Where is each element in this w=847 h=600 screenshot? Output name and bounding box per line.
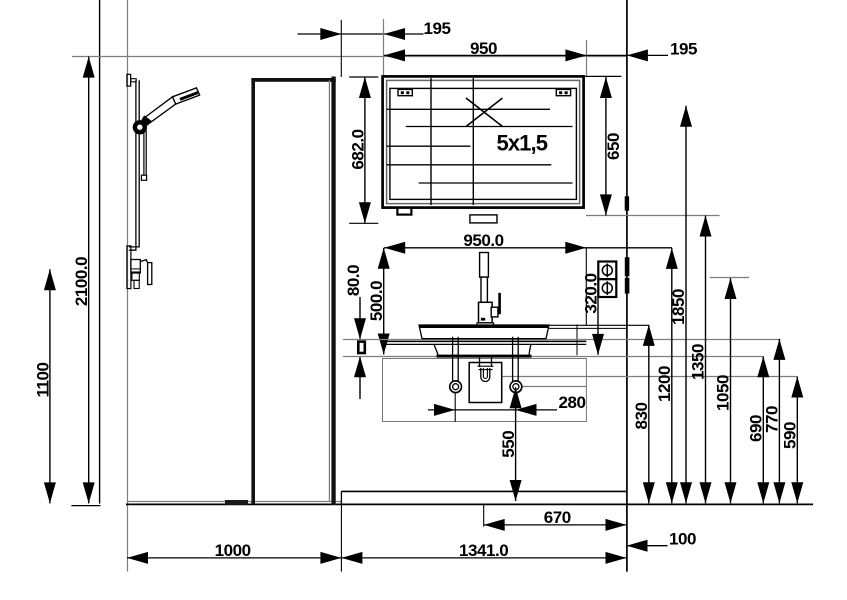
wall edge right: [626, 0, 628, 572]
sink ext line right: [585, 248, 587, 325]
under-sink gray outline box: [383, 359, 587, 422]
dim 682.0: down arrow: [359, 202, 371, 223]
shower valve body: [131, 260, 140, 274]
reference line at cabinet bottom to 1350: [586, 215, 720, 217]
dim 950.0 sink: left arrow: [384, 242, 405, 254]
svg-text:195: 195: [424, 19, 451, 38]
dim 195 top-left: left-pointing arrow: [384, 28, 405, 40]
dim 100: [627, 530, 697, 552]
dim 195 top-left: right-pointing arrow: [320, 28, 341, 40]
shower rail top arm: [131, 79, 137, 82]
svg-text:950.0: 950.0: [463, 231, 503, 250]
dim 950 top: right arrow: [565, 49, 586, 61]
wall mount block 3: [625, 278, 630, 294]
dim 195 top-right: left-pointing arrow at wall: [627, 49, 648, 61]
svg-text:500.0: 500.0: [367, 281, 386, 321]
faucet riser top: [480, 253, 489, 278]
reference line 690-level: [343, 356, 763, 358]
dim 500.0: down arrow: [378, 334, 390, 355]
dim 670: [484, 508, 627, 531]
mirror cabinet divider 1: [430, 78, 432, 205]
svg-text:100: 100: [669, 530, 696, 549]
washtop slab top line: [383, 340, 586, 342]
dim 1050 top tick: [710, 277, 749, 279]
left supply pipe: [452, 337, 454, 381]
siphon box: [469, 363, 502, 403]
drain tube from basin: [479, 358, 481, 367]
dim 682.0: top tick: [349, 76, 378, 78]
svg-text:1100: 1100: [34, 362, 53, 397]
shelf line 1: [387, 108, 550, 110]
dim 280: left-pointing arrow: [516, 404, 537, 416]
wall mount block 2: [625, 257, 630, 276]
dim 950 top: left arrow: [384, 49, 405, 61]
wall face line left: [127, 0, 129, 572]
reference line 770-level: [343, 339, 780, 341]
dim 2100.0: up arrow: [83, 57, 95, 78]
shower panel inner gray line: [328, 80, 330, 501]
shower elbow joint: [141, 115, 151, 125]
right angle valve: [510, 381, 522, 393]
dim 195 top-left: line: [298, 33, 424, 35]
shower panel left edge: [251, 78, 255, 504]
dim 950 top: line with tail to 195 text: [384, 54, 668, 56]
dim 650: line: [605, 77, 607, 215]
dim 830: [632, 325, 655, 503]
reference line valve-level: [522, 386, 586, 388]
bottom-left fitting: [397, 208, 411, 215]
svg-text:2100.0: 2100.0: [72, 257, 91, 306]
dim 1341.0: [341, 541, 626, 564]
ext line below floor at 341.4: [340, 504, 342, 572]
ext line above panel: [340, 20, 342, 77]
shelf line 4: [387, 164, 552, 166]
reference line 590-level: [501, 376, 798, 378]
shower hose: [143, 130, 145, 176]
svg-text:830: 830: [632, 402, 651, 429]
dim 1100: down arrow: [44, 482, 56, 503]
svg-text:1341.0: 1341.0: [459, 541, 508, 560]
svg-text:280: 280: [559, 393, 586, 412]
X cross mark: [466, 98, 503, 127]
dim 2100.0: down arrow: [83, 482, 95, 503]
faucet riser mid: [481, 277, 487, 302]
reference line second at rim bottom: [549, 327, 627, 329]
mirror cabinet divider 2: [472, 78, 474, 205]
washtop wall bracket square: [358, 342, 365, 353]
dim 1350: [689, 216, 712, 504]
shower rail top bracket plate: [127, 74, 131, 86]
basin rim top band: [419, 325, 549, 328]
dim 1200: [655, 248, 678, 503]
wall mount block 1: [625, 196, 629, 210]
dim 550: up arrow: [510, 387, 522, 408]
shower valve lower box: [134, 280, 139, 288]
shower valve inner box: [132, 272, 139, 280]
svg-text:5x1,5: 5x1,5: [497, 131, 548, 156]
dim 2100.0: line: [88, 57, 90, 504]
dim 682.0: line: [364, 77, 366, 223]
shelf line 2: [406, 126, 573, 128]
svg-text:1200: 1200: [655, 366, 674, 402]
shower rail tube: [129, 80, 139, 250]
dim 1100: up arrow: [44, 269, 56, 290]
shower hose end fitting: [141, 175, 146, 180]
plinth top line: [341, 490, 626, 492]
dim 320.0: line: [597, 290, 599, 355]
shower valve cross lines: [131, 268, 140, 270]
short vertical line right of basin: [576, 325, 578, 356]
shower valve backplate: [127, 246, 131, 289]
socket box upper: [598, 262, 616, 280]
hinge top right: [556, 89, 570, 95]
shower panel right band: [331, 77, 335, 506]
washtop slab bottom line: [383, 343, 586, 345]
svg-text:590: 590: [781, 422, 800, 449]
dim 320.0: down arrow: [592, 334, 604, 355]
shower panel top band: [251, 78, 335, 82]
reference line 830-level: [549, 324, 649, 326]
basin bowl left side: [434, 344, 438, 354]
left angle valve: [450, 381, 462, 393]
floor tick left: [71, 505, 100, 507]
left valve centerline below: [454, 393, 456, 422]
svg-text:1000: 1000: [215, 541, 251, 560]
ceiling line: [72, 56, 627, 58]
dim 690: [747, 356, 770, 503]
dim 1100: line: [49, 269, 51, 503]
bottle trap U: [481, 368, 490, 382]
dim 1000: [127, 541, 341, 564]
faucet body: [479, 302, 493, 323]
shelf line 3: [387, 145, 471, 147]
mirror cabinet gray inner line: [387, 80, 580, 203]
dim 80.0: upper line and down arrow: [359, 297, 361, 339]
mirror cabinet inner frame: [390, 88, 577, 199]
svg-text:950: 950: [470, 39, 497, 58]
shower slider knob: [133, 120, 147, 134]
dim 950.0 sink: right arrow: [565, 242, 586, 254]
dim 682.0: up arrow: [359, 77, 371, 98]
dim 682.0: bottom tick: [349, 222, 378, 224]
cabinet top tick right: [584, 75, 622, 77]
shower handle: [146, 97, 176, 123]
faucet side knob: [491, 307, 498, 317]
dim 280: line: [428, 409, 557, 411]
faucet base flange: [477, 323, 494, 326]
drain flange: [478, 365, 494, 367]
hinge top left: [398, 89, 412, 95]
svg-text:80.0: 80.0: [344, 265, 363, 296]
dim 650: down arrow: [600, 194, 612, 215]
floor main line: [126, 503, 813, 505]
mirror cabinet outer box: [383, 76, 584, 207]
basin rim: [419, 325, 549, 339]
svg-text:1350: 1350: [689, 344, 708, 380]
basin bowl right side: [529, 344, 531, 354]
floor gray line: [127, 501, 341, 503]
shower valve lever bar: [148, 263, 152, 285]
svg-text:770: 770: [763, 406, 782, 433]
plinth left edge: [340, 491, 342, 503]
shower head: [173, 88, 200, 104]
dim 500.0: up arrow: [378, 248, 390, 269]
dim 280: right-pointing arrow: [434, 404, 455, 416]
shelf line 5: [419, 182, 573, 184]
socket box lower: [598, 279, 616, 297]
shower valve lever connector: [140, 260, 148, 263]
svg-text:1050: 1050: [714, 375, 733, 411]
ext line mirror left top: [383, 19, 385, 77]
dim 650: up arrow: [600, 77, 612, 98]
svg-text:650: 650: [604, 133, 623, 160]
right supply pipe: [512, 337, 514, 381]
faucet dark detail: [481, 318, 485, 321]
ext line mirror right top: [586, 40, 588, 77]
svg-text:195: 195: [670, 40, 697, 59]
dim 950.0 sink: line extending to 1200 arrow: [384, 247, 672, 249]
dim 550: line: [515, 387, 517, 501]
svg-text:1850: 1850: [669, 289, 688, 325]
dim 80.0: lower line and up arrow: [359, 356, 361, 399]
dim 1850: [669, 106, 692, 503]
dim 500.0: line: [383, 248, 385, 355]
faucet lever bar: [498, 293, 501, 314]
threshold block: [225, 500, 248, 505]
dim 1050: [714, 278, 737, 503]
svg-text:550: 550: [499, 431, 518, 458]
wall edge left: [99, 0, 101, 504]
svg-text:670: 670: [544, 508, 571, 527]
dim 590: [781, 377, 804, 504]
ext line below floor at 483.7: [483, 505, 485, 527]
basin bowl bottom band: [437, 355, 532, 358]
svg-text:682.0: 682.0: [348, 129, 367, 169]
dim 770: [763, 339, 786, 503]
bottom center tab: [470, 215, 497, 223]
dim 550: down arrow: [510, 480, 522, 501]
